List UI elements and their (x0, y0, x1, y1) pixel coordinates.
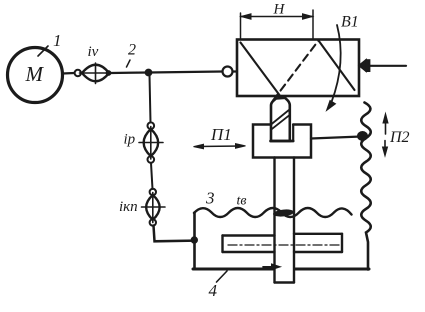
arrow P1 (197, 145, 242, 148)
svg-text:tв: tв (237, 194, 247, 209)
wire ikp to tank (154, 226, 195, 242)
left coupling circle (223, 67, 233, 77)
spring (wavy vertical) (361, 103, 371, 270)
wire node 2 down (150, 75, 151, 123)
svg-text:1: 1 (53, 31, 62, 50)
svg-text:iкп: iкп (119, 199, 138, 215)
transmission ip (148, 122, 155, 129)
arrow P2 down (384, 141, 386, 150)
arrow P2 up (385, 121, 387, 134)
slider block (253, 125, 311, 158)
water blob at shaft (273, 209, 295, 218)
wire iv to node 2 and to drum (111, 72, 223, 74)
right shaft wire (370, 65, 407, 67)
drum B1 (237, 40, 359, 97)
wire motor to iv (63, 72, 75, 75)
transmission iv (75, 70, 81, 76)
notch bottom (271, 140, 294, 143)
svg-text:В1: В1 (341, 14, 359, 31)
svg-text:П2: П2 (389, 129, 410, 146)
motor M (8, 48, 63, 103)
notch right wall (292, 125, 294, 142)
wire ip to ikp (151, 163, 153, 189)
svg-text:ip: ip (124, 132, 136, 148)
drum groove dashed (273, 41, 319, 101)
svg-text:M: M (25, 62, 45, 86)
wire block to spring (311, 137, 361, 139)
dimension H arrow line (241, 16, 314, 18)
spring junction blob (357, 131, 368, 141)
svg-text:3: 3 (205, 189, 215, 208)
paddle bar (223, 234, 275, 236)
hub bottom (275, 281, 295, 283)
rotation arrow B1 (332, 25, 341, 102)
svg-text:4: 4 (209, 281, 218, 300)
shaft block to paddle (273, 158, 275, 283)
svg-text:iv: iv (88, 44, 99, 60)
drum groove solid left (241, 43, 284, 101)
paddle centerline (228, 244, 340, 246)
svg-text:H: H (273, 2, 286, 18)
tank bottom (193, 268, 274, 271)
right shaft cone (359, 60, 366, 71)
water surface wavy (194, 208, 352, 217)
follower pen (271, 98, 290, 141)
drum groove solid right (319, 41, 355, 91)
node 2 junction (145, 69, 152, 76)
svg-text:2: 2 (128, 42, 136, 59)
follower slot hatch (271, 110, 290, 125)
dimension H extension lines (240, 13, 242, 38)
transmission ikp (150, 189, 156, 195)
arrow at hub (263, 266, 272, 268)
svg-text:П1: П1 (210, 125, 232, 144)
tank left wall (193, 213, 196, 270)
